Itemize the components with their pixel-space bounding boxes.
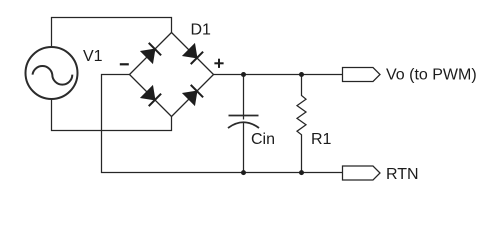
wire V1 bottom to bridge bottom bbox=[52, 99, 172, 131]
node junction bottom R1 bbox=[299, 170, 304, 175]
resistor R1 bbox=[297, 75, 306, 173]
AC source V1 bbox=[26, 47, 78, 99]
diode D1b top-to-right bbox=[172, 33, 214, 75]
wire minus node to RTN rail bbox=[102, 75, 343, 173]
svg-text:D1: D1 bbox=[191, 22, 212, 39]
diode D1c left-to-bottom bbox=[130, 75, 172, 117]
node junction top Cin bbox=[241, 72, 246, 77]
svg-text:V1: V1 bbox=[83, 48, 103, 65]
minus sign bbox=[120, 63, 129, 65]
svg-text:R1: R1 bbox=[311, 131, 332, 148]
diode D1d bottom-to-right bbox=[172, 75, 214, 117]
terminal Vo bbox=[343, 68, 381, 82]
svg-text:RTN: RTN bbox=[386, 166, 419, 183]
node junction bottom Cin bbox=[241, 170, 246, 175]
terminal RTN bbox=[343, 166, 381, 180]
wire V1 top to bridge top bbox=[52, 18, 172, 48]
svg-text:Cin: Cin bbox=[251, 131, 275, 148]
plus sign bbox=[214, 59, 223, 68]
svg-text:Vo (to PWM): Vo (to PWM) bbox=[386, 67, 477, 84]
bridge rectifier D1 bbox=[130, 33, 214, 117]
capacitor Cin bbox=[228, 75, 259, 173]
node junction top R1 bbox=[299, 72, 304, 77]
diode D1a left-to-top bbox=[130, 33, 172, 75]
wire plus node to Vo rail bbox=[214, 74, 343, 76]
